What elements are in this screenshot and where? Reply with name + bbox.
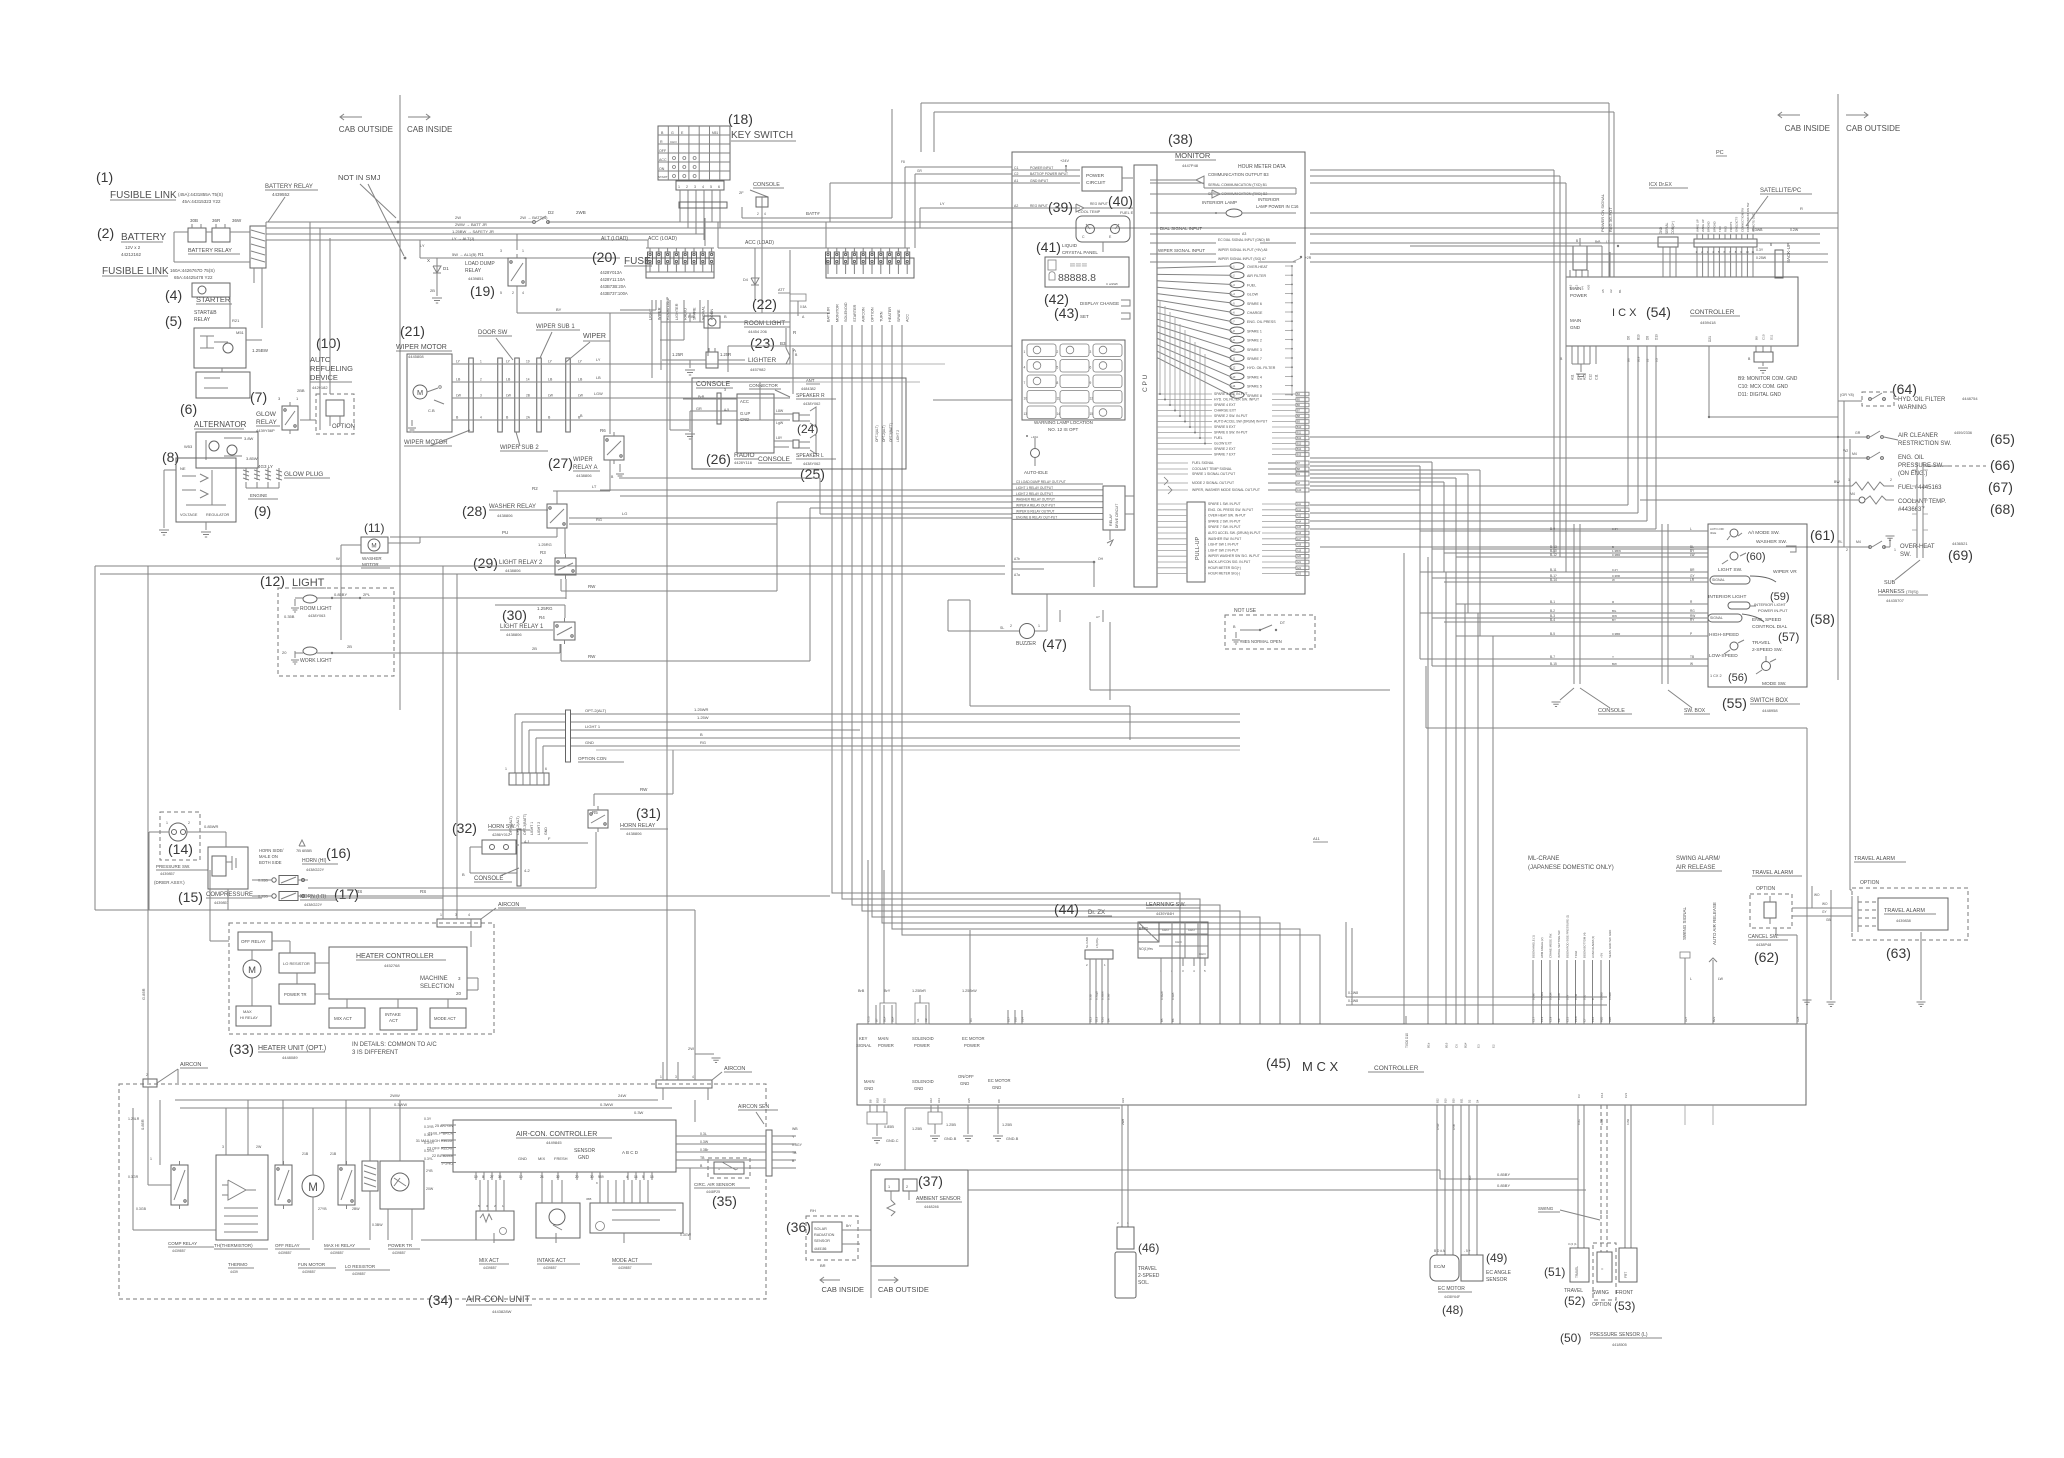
svg-text:(58): (58) <box>1810 611 1835 627</box>
svg-text:TRAVEL: TRAVEL <box>1752 640 1771 646</box>
svg-text:RW: RW <box>640 787 648 792</box>
svg-text:0.3Y: 0.3Y <box>1612 527 1618 531</box>
svg-text:4439838: 4439838 <box>1896 919 1911 923</box>
aircon unit box <box>119 1084 766 1299</box>
svg-text:R3: R3 <box>540 550 546 555</box>
svg-text:B10: B10 <box>1297 426 1302 429</box>
svg-text:CON(1+): CON(1+) <box>1671 221 1675 234</box>
svg-text:A14: A14 <box>1297 520 1302 523</box>
svg-text:1: 1 <box>678 185 680 189</box>
svg-text:B9: B9 <box>1557 1018 1561 1022</box>
comp relay <box>171 1165 188 1205</box>
svg-text:0.3W8: 0.3W8 <box>1348 991 1358 995</box>
svg-text:SPARE 7 SW. IN-PUT: SPARE 7 SW. IN-PUT <box>1208 525 1241 529</box>
svg-text:5: 5 <box>1057 366 1059 370</box>
svg-text:SPARE 5 EXT: SPARE 5 EXT <box>1214 425 1236 429</box>
wires acts to bottom <box>493 1233 495 1243</box>
svg-text:INTERIOR: INTERIOR <box>1258 197 1280 202</box>
svg-text:WAKE UP: WAKE UP <box>1701 219 1705 232</box>
heater mix act <box>329 1008 365 1028</box>
svg-text:GND-C: GND-C <box>886 1139 899 1143</box>
svg-text:▒▒ ▒▒ ▒▒: ▒▒ ▒▒ ▒▒ <box>1070 263 1087 267</box>
glow plug <box>245 468 247 480</box>
svg-text:0.85B: 0.85B <box>884 1125 894 1129</box>
svg-text:LY: LY <box>456 360 461 364</box>
svg-text:HORN SW.: HORN SW. <box>488 824 516 830</box>
svg-text:GND: GND <box>864 1086 873 1091</box>
svg-text:C10: C10 <box>1762 334 1766 340</box>
power tr 2 <box>380 1161 424 1209</box>
svg-text:MACHINE: MACHINE <box>420 976 448 982</box>
svg-text:(46): (46) <box>1138 1241 1159 1255</box>
svg-text:9: 9 <box>1090 381 1092 385</box>
svg-text:D8: D8 <box>997 1099 1001 1103</box>
svg-text:B18: B18 <box>876 1098 880 1103</box>
svg-text:GR: GR <box>696 407 702 411</box>
svg-text:B: B <box>1770 243 1772 247</box>
svg-text:DIAL SIGNAL INPUT: DIAL SIGNAL INPUT <box>1160 226 1202 231</box>
svg-text:KEY: KEY <box>859 1036 868 1041</box>
svg-text:0.3YG: 0.3YG <box>424 1149 434 1153</box>
svg-text:LW: LW <box>506 394 512 398</box>
svg-text:LO RESISTOR: LO RESISTOR <box>345 1264 376 1269</box>
svg-text:L8Y: L8Y <box>776 436 783 440</box>
svg-text:D13: D13 <box>1095 1016 1099 1022</box>
0.3WB lines <box>1346 996 1607 998</box>
monitor pins A7 <box>1012 561 1094 563</box>
svg-text:ENG. OIL: ENG. OIL <box>1898 455 1925 461</box>
svg-text:(6): (6) <box>180 401 197 417</box>
svg-text:B19: B19 <box>1445 1042 1449 1048</box>
svg-text:CHO: CHO <box>670 140 677 144</box>
svg-text:(7): (7) <box>250 389 267 405</box>
svg-text:B-7: B-7 <box>1550 655 1555 659</box>
svg-text:A4: A4 <box>1581 286 1585 290</box>
svg-text:B14: B14 <box>1297 448 1302 451</box>
svg-text:0.3Y: 0.3Y <box>424 1117 432 1121</box>
svg-text:SPEAKER L: SPEAKER L <box>796 453 824 459</box>
svg-text:B10: B10 <box>1444 1098 1448 1103</box>
svg-text:(50): (50) <box>1560 1331 1581 1345</box>
svg-text:WASHER: WASHER <box>362 556 382 561</box>
svg-text:G.UP: G.UP <box>740 411 750 416</box>
svg-text:4436521: 4436521 <box>1952 541 1968 546</box>
monitor relay outputs left <box>1012 483 1103 485</box>
svg-text:4438806: 4438806 <box>497 513 513 518</box>
svg-text:SPARE 3: SPARE 3 <box>1247 348 1262 352</box>
svg-text:BW: BW <box>1834 480 1840 484</box>
svg-text:BrY: BrY <box>846 1224 852 1228</box>
svg-text:WIPER VR: WIPER VR <box>1773 569 1797 575</box>
svg-text:L: L <box>1690 527 1692 531</box>
svg-text:4438806: 4438806 <box>506 632 522 637</box>
svg-text:SENSOR: SENSOR <box>814 1239 830 1243</box>
svg-text:SWITCH BOX: SWITCH BOX <box>1750 698 1788 704</box>
svg-text:C.B: C.B <box>428 408 435 413</box>
svg-text:8: 8 <box>1057 381 1059 385</box>
svg-text:WIPER SIGNAL IN-PUT (+5V) A5: WIPER SIGNAL IN-PUT (+5V) A5 <box>1218 248 1268 252</box>
svg-text:(68): (68) <box>1990 501 2015 517</box>
svg-text:C16: C16 <box>1591 1016 1595 1022</box>
svg-text:TRAVEL ALARM: TRAVEL ALARM <box>1854 856 1895 862</box>
svg-text:WO: WO <box>1814 893 1820 897</box>
front pressure sensor (53) <box>1619 1248 1637 1282</box>
svg-text:(45A):4431855A T5(S): (45A):4431855A T5(S) <box>178 192 223 197</box>
svg-text:(55): (55) <box>1722 695 1747 711</box>
svg-text:BP GND: BP GND <box>1712 221 1716 232</box>
svg-text:MODE ACT: MODE ACT <box>434 1016 456 1021</box>
svg-text:A23: A23 <box>1297 573 1302 576</box>
svg-text:LAMP POWER IN C16: LAMP POWER IN C16 <box>1256 204 1299 209</box>
diode D1 <box>436 258 438 285</box>
svg-text:44435707: 44435707 <box>1886 598 1905 603</box>
svg-text:A19: A19 <box>1297 549 1302 552</box>
svg-text:0.25W: 0.25W <box>1756 256 1767 260</box>
svg-text:CIRC. AIR SENSOR: CIRC. AIR SENSOR <box>694 1182 736 1187</box>
svg-text:0.4GW: 0.4GW <box>1160 991 1164 1000</box>
svg-text:2WW → BATT JR: 2WW → BATT JR <box>455 222 487 227</box>
svg-text:C3 LOAD DUMP RELAY OUT-PUT: C3 LOAD DUMP RELAY OUT-PUT <box>1016 480 1066 484</box>
svg-text:4439857: 4439857 <box>543 1266 557 1270</box>
svg-text:M51: M51 <box>712 131 718 135</box>
svg-text:MALE ON: MALE ON <box>259 854 278 859</box>
starter motor <box>196 372 250 398</box>
svg-text:AIR FILTER: AIR FILTER <box>1247 274 1267 278</box>
switch box row wires <box>1420 530 1708 532</box>
svg-text:GND: GND <box>960 1081 969 1086</box>
icx top pins main power <box>1569 270 1571 277</box>
svg-text:FUEL #4445163: FUEL #4445163 <box>1898 485 1942 491</box>
svg-text:SPARE 5: SPARE 5 <box>1247 385 1262 389</box>
svg-text:(34): (34) <box>428 1292 453 1308</box>
svg-text:HEATER CONTROLLER: HEATER CONTROLLER <box>356 953 434 960</box>
svg-text:4439Y56P: 4439Y56P <box>256 428 275 433</box>
svg-text:W: W <box>336 556 340 561</box>
svg-text:0.3LgB: 0.3LgB <box>1095 991 1099 1000</box>
svg-text:4-2: 4-2 <box>524 868 531 873</box>
svg-text:(9): (9) <box>254 503 271 519</box>
svg-text:BOTH SIDE: BOTH SIDE <box>259 860 282 865</box>
svg-text:LW: LW <box>548 394 554 398</box>
svg-text:HORN SIDE/: HORN SIDE/ <box>259 848 284 853</box>
svg-text:(21): (21) <box>400 323 425 339</box>
svg-text:0.5W: 0.5W <box>1436 1123 1440 1130</box>
svg-text:0.3LR: 0.3LR <box>1557 993 1561 1000</box>
svg-text:0.3W: 0.3W <box>700 1140 709 1144</box>
svg-text:0.3L: 0.3L <box>700 1132 707 1136</box>
svg-text:0.2Y: 0.2Y <box>1612 568 1618 572</box>
svg-text:CAB INSIDE: CAB INSIDE <box>407 125 452 134</box>
svg-text:EC DIAL SIGNAL INPUT (GND) B5: EC DIAL SIGNAL INPUT (GND) B5 <box>1218 238 1270 242</box>
svg-text:HYD. OIL FILTER: HYD. OIL FILTER <box>1247 366 1276 370</box>
svg-text:A12: A12 <box>929 1098 933 1103</box>
svg-text:(66): (66) <box>1990 457 2015 473</box>
svg-text:20W: 20W <box>426 1187 434 1191</box>
svg-text:3: 3 <box>222 1145 224 1149</box>
svg-text:ON: ON <box>659 167 665 171</box>
svg-text:1: 1 <box>440 913 442 917</box>
svg-text:2B: 2B <box>347 644 352 649</box>
svg-text:1.25BW → SAFETY JR: 1.25BW → SAFETY JR <box>452 229 494 234</box>
fuse bank 1 <box>646 258 714 278</box>
svg-text:WORK LIGHT: WORK LIGHT <box>300 658 332 664</box>
svg-text:WIPER WASHER SW SIG. IN-PUT: WIPER WASHER SW SIG. IN-PUT <box>1208 554 1260 558</box>
svg-text:AIR RELEASE: AIR RELEASE <box>1676 865 1715 871</box>
svg-text:A7a: A7a <box>1014 573 1020 577</box>
svg-text:GND(2)CTS: GND(2)CTS <box>1735 217 1739 232</box>
svg-text:START&B: START&B <box>194 310 217 316</box>
svg-text:TRAVEL ALARM: TRAVEL ALARM <box>1884 908 1925 914</box>
svg-text:ENG. OIL PRESS: ENG. OIL PRESS <box>1247 320 1276 324</box>
svg-text:2W: 2W <box>455 215 461 220</box>
svg-text:MAIN: MAIN <box>878 1036 888 1041</box>
svg-text:SPARE 6 SW. IN-PUT: SPARE 6 SW. IN-PUT <box>1214 431 1247 435</box>
svg-text:WIPER SIGNAL INPUT: WIPER SIGNAL INPUT <box>1158 248 1205 253</box>
svg-text:+24V: +24V <box>1060 159 1069 163</box>
svg-text:(37): (37) <box>918 1173 943 1189</box>
svg-text:SPEAKER R: SPEAKER R <box>796 393 825 399</box>
svg-text:(1): (1) <box>96 169 113 185</box>
svg-text:4447P48: 4447P48 <box>1182 163 1199 168</box>
travel alarm grounds <box>1830 890 1832 1000</box>
svg-text:TRAVEL: TRAVEL <box>1138 1266 1157 1272</box>
svg-text:D1: D1 <box>969 1018 973 1022</box>
svg-text:HYD. OIL FILTER SW. INPUT: HYD. OIL FILTER SW. INPUT <box>1214 398 1259 402</box>
svg-text:21B: 21B <box>302 1152 309 1156</box>
svg-text:AIR-CON. CONTROLLER: AIR-CON. CONTROLLER <box>516 1131 597 1138</box>
svg-text:GND: GND <box>992 1085 1001 1090</box>
svg-text:REG INPUT: REG INPUT <box>1030 204 1048 208</box>
switch box feed bends <box>1419 490 1421 531</box>
svg-text:C1B: C1B <box>1574 1016 1578 1022</box>
svg-text:1: 1 <box>888 1185 890 1189</box>
svg-text:B7: B7 <box>875 1018 879 1022</box>
svg-text:14: 14 <box>1057 412 1061 416</box>
svg-text:3: 3 <box>675 1075 677 1079</box>
svg-text:OVER-HEAT: OVER-HEAT <box>1247 265 1269 269</box>
svg-text:30B: 30B <box>190 218 198 223</box>
svg-text:(DRIER ASSY.): (DRIER ASSY.) <box>154 880 185 885</box>
svg-text:SOL.: SOL. <box>1138 1280 1149 1286</box>
svg-text:B11: B11 <box>1297 432 1302 435</box>
heater intake act <box>380 1008 417 1030</box>
svg-text:COOLANT TEMP SIGNAL: COOLANT TEMP SIGNAL <box>1192 467 1232 471</box>
svg-text:GND: GND <box>1659 226 1663 234</box>
svg-text:B6: B6 <box>1171 1018 1175 1022</box>
svg-text:4439857: 4439857 <box>160 872 175 876</box>
long vertical to aircon connector <box>666 302 668 1080</box>
thermistor block <box>216 1155 268 1240</box>
svg-text:SUB: SUB <box>1884 580 1896 586</box>
svg-text:GND: GND <box>518 1156 527 1161</box>
wire AL1 branch <box>420 257 620 259</box>
monitor pull-up rows <box>1187 502 1205 582</box>
svg-text:B: B <box>462 872 465 877</box>
svg-text:FUEL SIGNAL: FUEL SIGNAL <box>1192 461 1214 465</box>
svg-text:C12: C12 <box>1589 374 1593 380</box>
svg-text:NOT USE: NOT USE <box>1234 608 1257 614</box>
svg-text:R2: R2 <box>532 486 538 491</box>
monitor staircase bundle <box>1159 300 1161 394</box>
svg-text:LIGHT SW 2 IN-PUT: LIGHT SW 2 IN-PUT <box>1208 548 1239 552</box>
svg-text:DT: DT <box>1280 621 1286 625</box>
svg-text:SPARE 2: SPARE 2 <box>1247 339 1262 343</box>
svg-text:M: M <box>371 543 376 550</box>
svg-text:0.3GW: 0.3GW <box>680 1233 692 1237</box>
svg-text:B9: B9 <box>1755 336 1759 340</box>
svg-text:A1: A1 <box>1014 179 1018 183</box>
svg-text:INTERIOR LIGHT: INTERIOR LIGHT <box>1708 594 1746 600</box>
svg-text:OPTION CON: OPTION CON <box>578 756 607 761</box>
svg-text:COMPRESSURE: COMPRESSURE <box>206 892 253 898</box>
heater controller <box>329 947 467 999</box>
svg-text:MAIN: MAIN <box>864 1079 874 1084</box>
svg-text:TXD: TXD <box>1718 226 1722 232</box>
svg-text:4457982: 4457982 <box>750 367 766 372</box>
svg-text:R: R <box>1800 206 1803 211</box>
svg-text:HEATER UNIT (OPT.): HEATER UNIT (OPT.) <box>258 1045 326 1052</box>
svg-text:B-4: B-4 <box>1550 618 1555 622</box>
svg-text:M: M <box>248 965 256 976</box>
console box with radio <box>692 378 906 469</box>
svg-text:ROOM LIGHT: ROOM LIGHT <box>744 320 785 327</box>
svg-text:RS: RS <box>420 889 426 894</box>
svg-text:FUEL: FUEL <box>1247 283 1256 287</box>
radio <box>737 394 774 453</box>
svg-text:B19: B19 <box>1637 356 1641 362</box>
svg-text:1: 1 <box>480 360 482 364</box>
svg-text:SOLENOID: SOLENOID <box>912 1036 934 1041</box>
travel alarm (63) <box>1852 888 1968 940</box>
svg-text:ACC: ACC <box>740 399 749 404</box>
svg-text:B3: B3 <box>780 341 786 346</box>
svg-text:A12: A12 <box>1297 509 1302 512</box>
svg-text:W: W <box>1612 578 1615 582</box>
svg-text:4448754: 4448754 <box>1962 396 1978 401</box>
svg-text:CANCEL SW.: CANCEL SW. <box>1748 934 1779 940</box>
svg-text:HYD. OIL FILTER: HYD. OIL FILTER <box>1898 397 1946 403</box>
svg-text:2: 2 <box>1890 478 1892 482</box>
svg-text:SOLENOID: SOLENOID <box>912 1079 934 1084</box>
svg-text:L14: L14 <box>1231 384 1236 388</box>
svg-text:4438Y062: 4438Y062 <box>803 462 820 466</box>
heater off relay <box>238 932 272 950</box>
svg-text:WIPER SUB 1: WIPER SUB 1 <box>536 324 575 330</box>
travel pressure sensor (51) <box>1570 1248 1589 1282</box>
svg-text:SPARE 2 SW. IN-PUT: SPARE 2 SW. IN-PUT <box>1208 519 1241 523</box>
svg-text:0.85BY: 0.85BY <box>1497 1183 1510 1188</box>
svg-text:STARTER: STARTER <box>853 304 857 322</box>
svg-text:ML-CRANE: ML-CRANE <box>1528 856 1559 862</box>
svg-text:C14: C14 <box>1600 1092 1604 1098</box>
svg-text:SIGNAL: SIGNAL <box>701 306 705 320</box>
svg-text:A21: A21 <box>1297 561 1302 564</box>
svg-text:4: 4 <box>626 1175 628 1179</box>
svg-text:A17: A17 <box>1297 538 1302 541</box>
mcx pin EC motor power <box>969 1005 971 1024</box>
svg-text:4: 4 <box>480 416 482 420</box>
svg-text:SPARE 2 SW. IN-PUT: SPARE 2 SW. IN-PUT <box>1214 414 1247 418</box>
svg-text:A10: A10 <box>1297 489 1302 492</box>
svg-text:1.25RG: 1.25RG <box>537 606 553 611</box>
svg-text:HOUR METER SIG(+): HOUR METER SIG(+) <box>1208 566 1241 570</box>
svg-text:AIRCON: AIRCON <box>862 307 866 322</box>
svg-text:(47): (47) <box>1042 636 1067 652</box>
svg-text:GND: GND <box>914 1086 923 1091</box>
heater max hi relay <box>236 1006 271 1026</box>
svg-text:24W: 24W <box>618 1093 626 1098</box>
svg-text:R: R <box>660 140 663 144</box>
mode switch (56) <box>1762 662 1771 671</box>
svg-text:MODE 2 SIGNAL OUT-PUT: MODE 2 SIGNAL OUT-PUT <box>1192 481 1234 485</box>
svg-text:4: 4 <box>522 291 524 295</box>
svg-text:3: 3 <box>455 913 457 917</box>
svg-text:A-5: A-5 <box>724 408 729 412</box>
svg-text:IN DETAILS: COMMON TO A/C: IN DETAILS: COMMON TO A/C <box>352 1042 437 1048</box>
svg-text:SL GND: SL GND <box>1085 936 1089 948</box>
svg-text:2BB: 2BB <box>297 388 305 393</box>
svg-text:WASHER SW.: WASHER SW. <box>1756 539 1787 545</box>
max hi relay 2 <box>338 1165 355 1205</box>
svg-text:CHARGE: CHARGE <box>1247 311 1263 315</box>
wire BATT from key switch <box>742 217 892 219</box>
console bars left of switch box <box>1573 524 1575 684</box>
svg-text:4438G22Y: 4438G22Y <box>306 868 325 872</box>
svg-text:D21: D21 <box>1708 336 1712 342</box>
svg-text:4438Y063: 4438Y063 <box>308 614 325 618</box>
cab boundary line left <box>399 95 401 710</box>
svg-text:A2B: A2B <box>1608 1017 1612 1022</box>
wires fuse bank1 to wiper bars <box>655 300 657 310</box>
svg-text:B1#: B1# <box>883 1016 887 1022</box>
svg-text:1: 1 <box>522 249 524 253</box>
svg-text:B8: B8 <box>869 1099 873 1103</box>
svg-text:SELECTION: SELECTION <box>420 984 454 990</box>
svg-text:EC MOTOR: EC MOTOR <box>1438 1286 1465 1292</box>
ec motor wires <box>1436 1105 1438 1255</box>
svg-text:0.85BY: 0.85BY <box>334 592 347 597</box>
travel alarm connector bar <box>1851 896 1853 932</box>
svg-text:KEY SWITCH: KEY SWITCH <box>731 130 793 141</box>
svg-text:C2: C2 <box>1014 172 1019 176</box>
svg-text:MAIN: MAIN <box>1570 318 1581 323</box>
svg-text:COMP RELAY: COMP RELAY <box>168 1241 197 1246</box>
svg-text:0.5A: 0.5A <box>800 305 807 309</box>
svg-text:C P U: C P U <box>1142 374 1149 392</box>
svg-text:SOLAR: SOLAR <box>814 1227 827 1231</box>
svg-text:36B: 36B <box>586 1197 591 1201</box>
svg-text:POWER INPUT: POWER INPUT <box>1030 166 1053 170</box>
svg-text:R21: R21 <box>232 318 240 323</box>
svg-text:C7: C7 <box>1583 1018 1587 1022</box>
svg-text:INTERIOR LIGHT: INTERIOR LIGHT <box>1754 602 1787 607</box>
svg-text:(43): (43) <box>1054 305 1079 321</box>
svg-text:0.3GR: 0.3GR <box>1549 992 1553 1000</box>
svg-text:0.3W: 0.3W <box>1574 993 1578 1000</box>
svg-text:A16: A16 <box>1297 532 1302 535</box>
svg-text:(69): (69) <box>1948 547 1973 563</box>
aircon top-left connector <box>143 1079 157 1087</box>
svg-text:BOOM ANGLE (1): BOOM ANGLE (1) <box>1532 935 1536 958</box>
monitor cpu bar <box>1134 165 1157 587</box>
svg-text:EC ANGLE: EC ANGLE <box>1486 1270 1512 1276</box>
svg-text:SENSOR: SENSOR <box>1486 1277 1508 1283</box>
svg-text:D1: D1 <box>443 266 449 271</box>
svg-text:+2R: +2R <box>1305 256 1312 260</box>
svg-text:4459418: 4459418 <box>1700 320 1716 325</box>
svg-text:CONNECTION SW: CONNECTION SW <box>1740 208 1744 232</box>
mcx pins solenoid power <box>915 1003 929 1024</box>
